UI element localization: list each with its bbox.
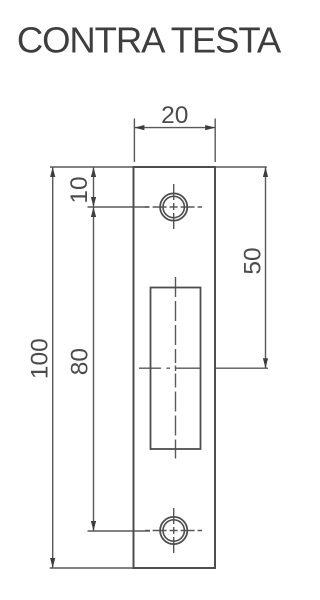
svg-text:50: 50 <box>240 247 267 274</box>
svg-text:10: 10 <box>66 176 93 203</box>
svg-text:100: 100 <box>27 338 54 379</box>
svg-text:80: 80 <box>67 348 94 375</box>
svg-text:CONTRA TESTA: CONTRA TESTA <box>17 20 282 61</box>
svg-text:20: 20 <box>161 102 188 129</box>
